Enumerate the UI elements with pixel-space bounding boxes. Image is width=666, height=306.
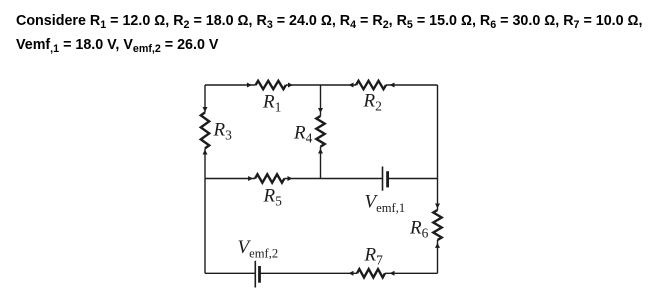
svg-text:R3: R3 <box>213 120 233 143</box>
wire top-right segment <box>386 84 438 86</box>
resistor R3 <box>201 112 209 148</box>
arrow at R4 bottom <box>318 149 323 154</box>
svg-text:R5: R5 <box>263 186 283 209</box>
wire left lower <box>204 148 206 273</box>
wire middle horizontal center <box>284 178 382 180</box>
svg-text:R2: R2 <box>363 91 382 114</box>
wire middle horizontal left <box>205 178 255 180</box>
wire left upper <box>204 85 206 112</box>
arrow at R6 bottom <box>435 243 440 248</box>
wire between R1 and R2 <box>286 84 356 86</box>
wire right upper <box>437 85 439 210</box>
svg-text:R6: R6 <box>409 218 429 241</box>
battery Vemf2 short plate <box>258 266 261 283</box>
wire middle vertical upper <box>320 85 322 116</box>
svg-text:R7: R7 <box>364 245 384 268</box>
svg-text:R1: R1 <box>262 92 281 115</box>
arrow at R5 left <box>248 176 253 181</box>
battery Vemf1 short plate <box>386 171 389 187</box>
arrow at R7 left <box>349 271 354 276</box>
svg-text:Vemf,2: Vemf,2 <box>238 237 279 260</box>
problem statement text <box>16 10 666 58</box>
wire top-left segment <box>205 84 256 86</box>
resistor R4 <box>316 116 324 147</box>
battery Vemf2 long plate <box>254 261 256 288</box>
arrow at R6 top <box>435 204 440 209</box>
arrow at R3 top <box>203 107 208 112</box>
wire bottom left <box>205 272 255 274</box>
arrow at R3 bottom <box>203 150 208 155</box>
svg-text:Vemf,1: Vemf,1 <box>365 192 406 216</box>
resistor R1 <box>256 81 286 89</box>
svg-text:R4: R4 <box>293 123 313 146</box>
arrow at R2 right <box>390 83 395 88</box>
wire middle vertical lower <box>320 147 322 179</box>
resistor R5 <box>255 174 284 182</box>
arrow at R1 left <box>247 83 252 88</box>
wire bottom center <box>260 272 358 274</box>
arrow at R4 top <box>318 108 323 113</box>
arrow at R1 right <box>288 83 293 88</box>
arrow at R2 left <box>349 83 354 88</box>
wire middle horizontal right <box>388 178 438 180</box>
resistor R6 <box>433 210 441 240</box>
arrow at R5 right <box>288 176 293 181</box>
resistor R7 <box>357 269 385 277</box>
wire right lower <box>437 240 439 273</box>
arrow at R7 right <box>390 271 395 276</box>
wire bottom right <box>385 272 438 274</box>
battery Vemf1 long plate <box>382 167 384 191</box>
resistor R2 <box>356 81 386 89</box>
